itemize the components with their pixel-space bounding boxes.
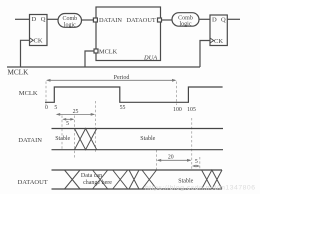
dashed marker t=20 end [191,118,193,170]
DATAOUT crosshatch right [202,170,222,189]
wire D input left FF [15,18,30,20]
dimension 5 (DATAOUT) [192,165,200,167]
DATAOUT waveform rails [52,170,223,189]
dimension 5 (DATAIN hold) [62,118,74,121]
dimension 25 [56,113,95,116]
svg-text:MCLK: MCLK [8,68,30,76]
svg-text:0: 0 [45,105,48,111]
svg-text:change here: change here [83,180,112,186]
svg-text:25: 25 [73,109,79,115]
wire Q2 output [227,18,240,20]
svg-text:Stable: Stable [55,136,70,142]
MCLK port [94,49,98,53]
svg-text:DUA: DUA [143,54,157,61]
svg-text:CK: CK [34,38,43,45]
wire DATAOUT port to comb logic right [162,19,173,21]
comb logic block right (oval) [172,13,199,27]
svg-text:MCLK: MCLK [99,48,118,55]
wire CK1 to MCLK bus [21,40,30,67]
dashed marker t=25 [95,101,97,152]
svg-text:Q: Q [221,16,226,23]
flip-flop U2 (right D flip-flop) [210,15,227,46]
svg-text:DATAIN: DATAIN [18,137,42,144]
timing diagram [46,82,200,173]
DATAIN port [93,18,97,22]
clock triangle CK1 [30,38,34,43]
svg-text:D: D [212,16,217,23]
svg-text:100: 100 [173,107,182,113]
DATAIN crosshatch [75,129,97,150]
svg-text:Stable: Stable [140,136,155,142]
svg-text:Data can: Data can [81,173,102,179]
DATAIN waveform rails [52,129,224,150]
dimension 20 (DATAOUT) [157,159,192,162]
DATAOUT crosshatch left [65,170,157,189]
DATAOUT port [158,18,162,22]
svg-text:20: 20 [168,155,174,161]
dashed marker DATAOUT stable start [156,150,158,172]
svg-text:MCLK: MCLK [19,90,38,97]
wire MCLK bus [7,66,200,68]
MCLK waveform [45,87,223,102]
dashed marker DATAIN hold start [61,116,63,151]
wire bus to CK2 [200,41,210,68]
wire MCLK port to bus [85,51,94,67]
dashed marker DATAIN change start [74,116,76,159]
svg-text:Stable: Stable [178,178,193,184]
svg-text:DATAOUT: DATAOUT [127,17,156,24]
dimension Period [46,79,177,82]
DUA block [96,7,161,61]
clock triangle CK2 [210,38,214,43]
svg-text:5: 5 [195,159,198,165]
svg-text:logic: logic [64,22,76,28]
wire Q1 to comb logic [47,18,58,20]
svg-text:5: 5 [54,105,57,111]
svg-text:logic: logic [180,22,192,28]
svg-text:D: D [32,16,37,23]
dashed marker t=0 [45,82,47,106]
svg-text:https://blog.csdn.net/m1347806: https://blog.csdn.net/m1347806 [145,185,255,192]
svg-text:Q: Q [41,16,46,23]
dashed marker t=100 [176,82,178,106]
svg-text:Period: Period [114,75,130,81]
svg-text:Comb: Comb [178,15,193,21]
wire comb logic to DATAIN port [82,19,94,21]
flip-flop U1 (left D flip-flop) [30,15,48,46]
svg-text:DATAIN: DATAIN [99,17,122,24]
svg-text:CK: CK [214,38,223,45]
svg-text:5: 5 [66,121,69,127]
svg-text:DATAOUT: DATAOUT [18,179,48,186]
svg-text:Comb: Comb [62,16,77,22]
svg-text:105: 105 [187,107,196,113]
comb logic block left (oval) [58,14,82,28]
svg-text:55: 55 [120,105,126,111]
wire comb logic right to D input [199,18,210,20]
dashed marker DATAOUT change [199,157,201,170]
